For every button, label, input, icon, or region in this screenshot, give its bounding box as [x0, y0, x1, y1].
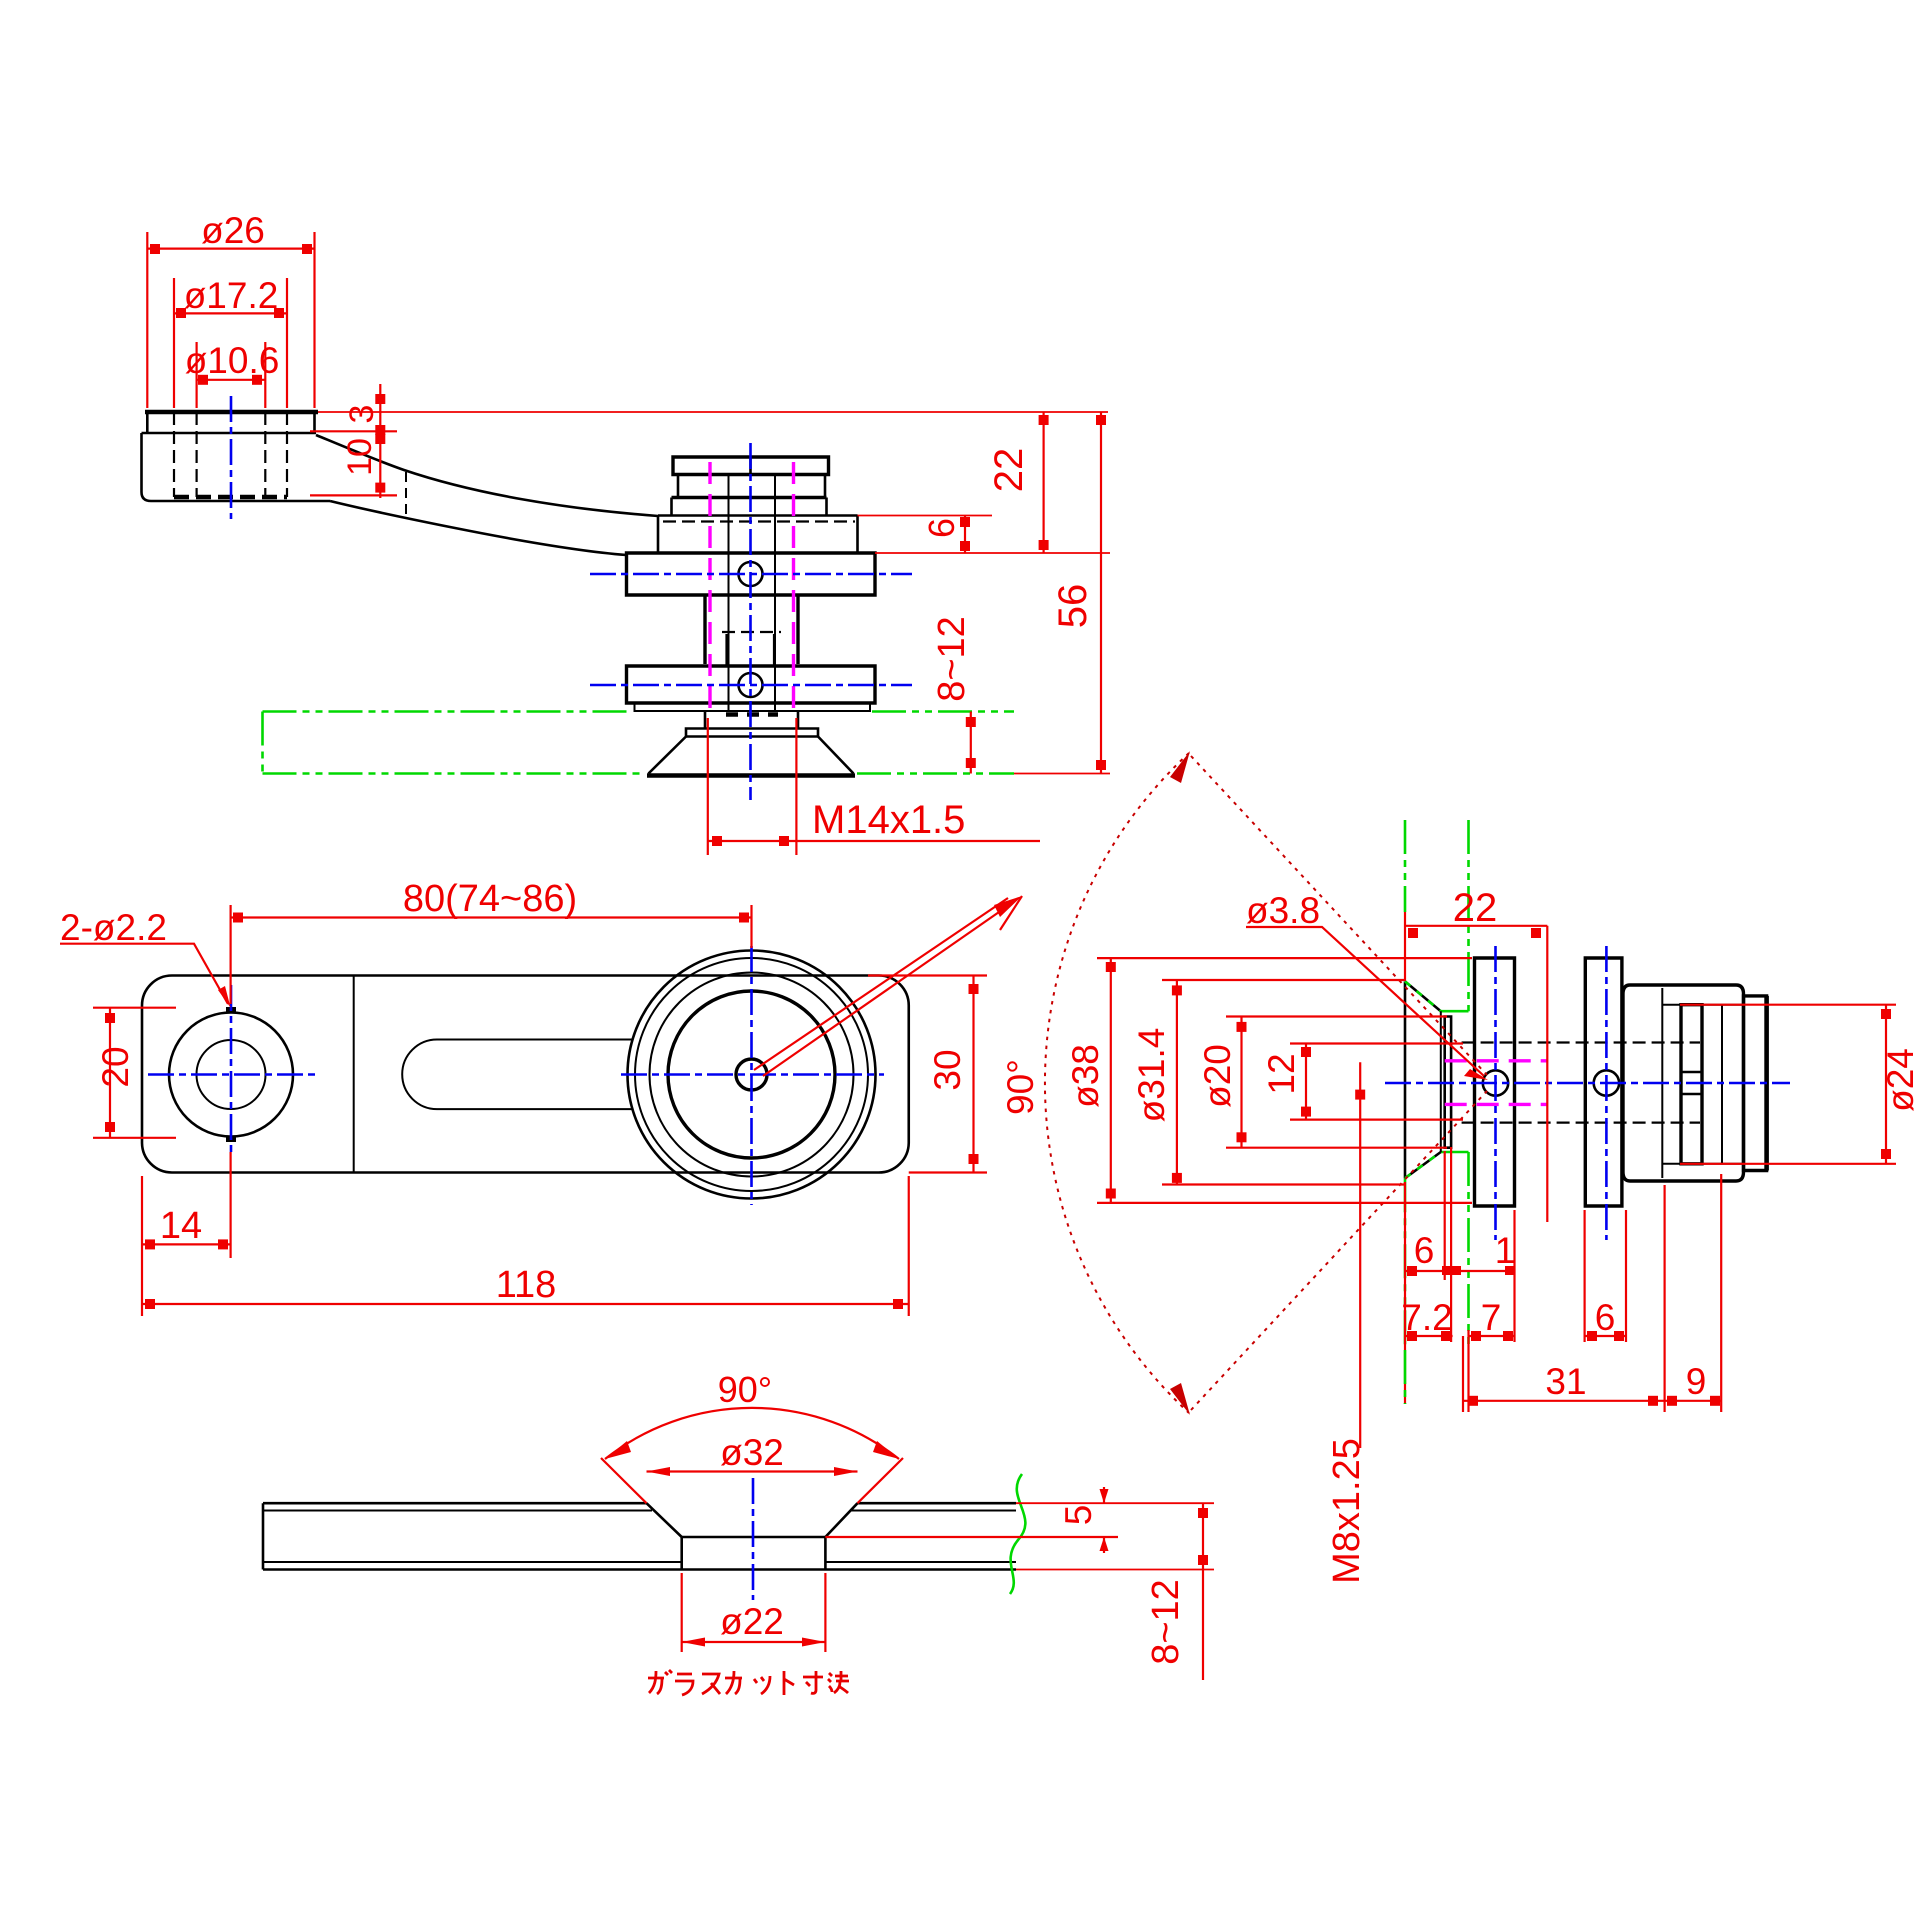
dim 22 (glass to thread depth): [1405, 886, 1547, 1222]
dim 1 (rim thickness): [1451, 1147, 1515, 1342]
clamp face circle (thick): [668, 991, 835, 1158]
clamp outer circle ø38: [628, 951, 876, 1199]
adjuster block between discs: [722, 632, 781, 666]
boss hole hidden lines ø10.6: [197, 412, 266, 497]
dim 90 degree arc: [605, 1369, 899, 1459]
svg-text:ø24: ø24: [1880, 1048, 1920, 1112]
leader 2-ø2.2: [60, 907, 231, 1008]
dim 6 (glass face to rim): [1405, 1151, 1515, 1404]
svg-text:7.2: 7.2: [1401, 1297, 1452, 1338]
inner bore lines: [729, 475, 776, 713]
dim 3 (flange height): [310, 384, 397, 435]
dim ø20: [1197, 1017, 1447, 1148]
boss thread hidden lines ø17.2: [174, 412, 287, 497]
plate boss joint line: [353, 976, 355, 1173]
arm hub hidden edge: [663, 520, 855, 522]
countersunk head cone: [649, 737, 854, 774]
adjusting slot: [402, 1040, 632, 1110]
svg-text:118: 118: [496, 1264, 557, 1306]
clamp disc 2: [1585, 958, 1622, 1206]
dim 6 (disc 2 width): [1585, 1210, 1626, 1342]
stem hidden lines ø12: [1462, 1043, 1700, 1123]
dim 12: [1261, 1044, 1463, 1120]
svg-text:31: 31: [1545, 1361, 1586, 1402]
boss centerline (blue): [230, 396, 233, 519]
swing fan arc 90deg: [1000, 751, 1190, 1415]
arm bottom edge: [330, 501, 627, 555]
ラ: [675, 1674, 693, 1695]
svg-text:6: 6: [921, 518, 962, 538]
glass pane top edge (green): [263, 710, 1015, 713]
svg-text:80(74~86): 80(74~86): [403, 878, 577, 920]
lower clamp disc: [627, 666, 876, 703]
washer under lower disc: [635, 703, 871, 711]
fitting axis centerline (blue): [1385, 1082, 1790, 1085]
dim 56 (overall height): [1051, 412, 1106, 774]
svg-text:14: 14: [160, 1205, 202, 1247]
lower disc centerline (blue): [590, 684, 912, 687]
boss flange top edge: [145, 410, 318, 415]
svg-text:7: 7: [1481, 1297, 1502, 1338]
svg-text:ø38: ø38: [1065, 1044, 1106, 1108]
swing fan radius lower: [1191, 1091, 1487, 1410]
glass cone edge overlay (green dashes): [1405, 981, 1441, 1178]
svg-text:ø26: ø26: [201, 210, 265, 251]
body collar ø30: [1623, 985, 1744, 1181]
寸: [803, 1671, 823, 1693]
dim M14x1.5: [708, 718, 1040, 855]
M8 tapped hole (magenta): [1445, 1061, 1547, 1105]
svg-text:8~12: 8~12: [931, 616, 973, 702]
svg-text:30: 30: [927, 1049, 968, 1090]
boss thread bottom thick dashed: [174, 495, 287, 500]
svg-text:M8x1.25: M8x1.25: [1326, 1438, 1368, 1584]
dim ø26: [147, 210, 314, 408]
glass top inner line: [263, 1510, 1016, 1512]
stud thread lines (magenta): [710, 462, 794, 717]
swing fan radius upper: [1191, 756, 1487, 1075]
svg-text:22: 22: [987, 448, 1031, 493]
dim 9: [1665, 1174, 1722, 1412]
countersink shoulder: [682, 1536, 826, 1539]
カ: [725, 1671, 742, 1694]
clamp cap tier 3: [672, 498, 827, 516]
section centerline (blue): [752, 1478, 755, 1600]
dim ø31.4: [1131, 980, 1404, 1185]
svg-text:90°: 90°: [718, 1369, 772, 1410]
knurl inner line: [1721, 1005, 1723, 1164]
dim 14: [142, 1152, 231, 1258]
head small end face ø22: [1440, 1011, 1442, 1152]
stem between discs: [705, 595, 798, 664]
center pin hole ø3.8: [736, 1059, 767, 1090]
M8 hole end rect: [1681, 1072, 1702, 1094]
arm step line: [405, 472, 407, 514]
glass surface ext lines (red): [1016, 1503, 1214, 1569]
dim 7.2: [1401, 1297, 1452, 1341]
head cone edges: [1405, 981, 1441, 1178]
dim 80(74~86): [231, 878, 752, 1004]
disc 1 centerline (blue): [1494, 946, 1497, 1240]
dim 20: [93, 1008, 176, 1138]
extension line disc top right: [875, 552, 1110, 554]
dim ø24: [1680, 1005, 1920, 1164]
glass section left end: [262, 1503, 265, 1569]
glass bottom surface: [263, 1568, 1016, 1571]
svg-text:20: 20: [95, 1046, 136, 1087]
upper clamp disc: [627, 553, 876, 595]
dim 10 (boss height): [310, 431, 397, 498]
clamp cap (back nut): [673, 457, 829, 475]
svg-text:3: 3: [343, 405, 381, 424]
disc 2 pin hole ø3.8: [1594, 1070, 1619, 1095]
clamp cap tier 2: [672, 475, 827, 498]
glass inner face (green): [1467, 820, 1470, 1350]
svg-text:10: 10: [341, 438, 379, 476]
svg-text:ø31.4: ø31.4: [1131, 1028, 1172, 1123]
dim ø32: [647, 1432, 858, 1476]
section pointer from pin hole: [754, 896, 1022, 1076]
knurl band: [1681, 1005, 1702, 1164]
dim 5 (countersink depth): [825, 1487, 1118, 1553]
head rim disk ø20: [1445, 1017, 1451, 1148]
glass pane bottom edge (green): [263, 772, 1015, 775]
glass pane left edge (green): [261, 712, 264, 774]
svg-text:ø10.6: ø10.6: [185, 340, 280, 381]
extension line glass bottom right: [1014, 773, 1110, 775]
glass inner face ext (green): [1404, 1350, 1407, 1404]
white fills of fitting: [1405, 958, 1767, 1206]
white fills of clamp parts: [627, 457, 876, 774]
svg-text:ø32: ø32: [720, 1432, 784, 1473]
svg-text:9: 9: [1686, 1361, 1707, 1402]
svg-text:ø3.8: ø3.8: [1246, 890, 1320, 931]
svg-text:5: 5: [1058, 1505, 1099, 1526]
leader M8x1.25: [1326, 1062, 1368, 1584]
svg-text:ø22: ø22: [720, 1601, 784, 1642]
pin hole 2-ø2.2 bottom: [226, 1136, 236, 1142]
arm top edge: [316, 435, 658, 516]
break line squiggle (green): [1010, 1474, 1025, 1594]
svg-text:1: 1: [1495, 1230, 1516, 1271]
body waist section ø24: [1662, 988, 1743, 1178]
dim 31: [1463, 1185, 1665, 1412]
clamp centerline vertical (blue): [750, 946, 753, 1205]
countersunk head rim: [686, 729, 818, 737]
ト: [784, 1671, 794, 1695]
svg-text:M14x1.5: M14x1.5: [812, 798, 965, 842]
disc 2 centerline (blue): [1605, 946, 1608, 1240]
svg-text:22: 22: [1453, 886, 1498, 930]
boss thread circle ø17.2: [169, 1013, 293, 1137]
ッ: [754, 1676, 770, 1694]
boss body outline: [142, 433, 331, 501]
clamp centerline (blue): [749, 443, 752, 800]
dim ø10.6: [185, 340, 280, 408]
thread engagement thick dash: [726, 712, 778, 717]
boss centerline vertical (blue): [230, 985, 233, 1155]
法: [828, 1671, 849, 1693]
svg-text:56: 56: [1051, 584, 1095, 629]
leader ø3.8: [1246, 890, 1488, 1080]
svg-text:6: 6: [1595, 1297, 1616, 1338]
label: glass cut dimensions (katakana, hand drawn): [648, 1670, 849, 1695]
svg-text:2-ø2.2: 2-ø2.2: [60, 907, 167, 948]
upper pin hole: [739, 562, 763, 586]
dim 30: [868, 976, 987, 1173]
extension line hub top: [858, 515, 993, 517]
countersink ext diagonals: [601, 1458, 903, 1503]
arm hub outline: [658, 516, 858, 553]
dim 8~12 (glass thickness): [931, 616, 976, 773]
svg-text:8~12: 8~12: [1145, 1579, 1187, 1665]
glass outer face (green): [1404, 820, 1407, 1350]
glass countersink shoulder (green): [1441, 1011, 1469, 1152]
head big end face: [1404, 981, 1407, 1178]
hole walls ø22: [682, 1537, 826, 1570]
countersink cone edges: [647, 1503, 858, 1537]
disc 1 pin hole ø3.8: [1483, 1070, 1508, 1095]
dim ø38: [1065, 958, 1472, 1203]
svg-text:90°: 90°: [1000, 1059, 1041, 1115]
extension line boss top: [318, 411, 1108, 413]
dim ø17.2: [174, 275, 287, 408]
boss hole circle ø10.6: [197, 1040, 266, 1109]
stem below washer: [705, 711, 798, 729]
dim 7 (glass to disc face): [1469, 1210, 1515, 1412]
boss centerline horizontal (blue): [148, 1073, 318, 1076]
dim 22 (top offset): [987, 412, 1049, 553]
glass top surface: [263, 1502, 1016, 1505]
dim 8~12 (glass thickness section): [1145, 1503, 1208, 1680]
svg-text:12: 12: [1261, 1053, 1302, 1094]
glass bottom inner line: [263, 1561, 1016, 1563]
svg-text:ø20: ø20: [1197, 1044, 1238, 1108]
svg-text:ø17.2: ø17.2: [184, 275, 279, 316]
ガ: [648, 1670, 672, 1694]
boss flange bottom line: [142, 432, 317, 435]
clamp disc 1: [1475, 958, 1515, 1206]
lower pin hole: [739, 673, 763, 697]
countersunk head bottom face: [647, 773, 855, 778]
arm plate outline: [142, 976, 909, 1173]
dim 118: [142, 1176, 909, 1316]
dim ø22: [682, 1573, 826, 1652]
clamp knurl circle: [635, 958, 868, 1191]
pin hole 2-ø2.2 top: [226, 1007, 236, 1013]
ス: [702, 1674, 720, 1694]
boss flange sides: [147, 412, 314, 433]
clamp circle ø31.4: [650, 973, 854, 1177]
tail ring: [1744, 996, 1767, 1171]
svg-text:6: 6: [1414, 1230, 1435, 1271]
clamp centerline horizontal (blue): [621, 1073, 884, 1076]
dim 6 (hub height): [921, 516, 970, 554]
upper disc centerline (blue): [590, 573, 912, 576]
